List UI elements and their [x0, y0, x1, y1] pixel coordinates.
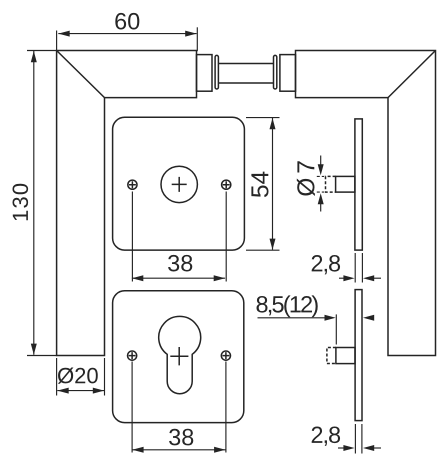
bottom side-view rosette plate [355, 290, 362, 421]
arrowhead D7 bottom [318, 193, 324, 204]
dim 130 bottom tick [27, 355, 57, 357]
dim 38 top right extension [225, 192, 227, 282]
keyhole cross [170, 347, 188, 365]
dim 54 bottom extension [246, 249, 280, 251]
arrowhead 54 top [270, 118, 276, 129]
left handle collar ring [215, 55, 218, 89]
dim 2,8 top right extension [361, 253, 363, 283]
top rosette square plate [113, 117, 245, 250]
arrowhead 130 top [31, 51, 37, 62]
spindle [219, 64, 273, 84]
top rosette right screw [222, 180, 231, 189]
arrowhead 38 bottom right [214, 447, 225, 453]
dim 130 top tick [27, 50, 57, 52]
euro profile cylinder keyhole [159, 316, 201, 393]
arrowhead D20 right [93, 388, 104, 394]
dim 2,8 bottom right shaft [372, 447, 381, 449]
arrowhead 38 bottom left [132, 447, 143, 453]
bottom rosette right screw [221, 351, 230, 360]
dim 2,8 bottom left shaft [338, 447, 345, 449]
dim 130 line [33, 51, 35, 355]
dim 8,5(12) leader line [258, 317, 331, 319]
dim 60 left extension line [56, 31, 58, 51]
arrowhead 2,8 top left [343, 275, 354, 281]
dim D20 left extension [56, 358, 58, 396]
right handle collar ring [274, 55, 277, 89]
label 54 (rotated) [251, 172, 268, 198]
label 38 bottom [169, 429, 193, 446]
dim 38 bottom right extension [225, 362, 227, 453]
top side-view rosette plate [355, 119, 362, 250]
dim 54 top extension [246, 117, 280, 119]
bottom side-view spindle stub [336, 348, 355, 364]
arrowhead 8,5(12) right [363, 315, 374, 321]
label 8,5(12) [257, 295, 318, 317]
arrowhead 38 top right [214, 275, 225, 281]
top side-view spindle stub [336, 176, 355, 192]
dim 60 right extension line [196, 27, 198, 51]
dim 38 bottom line [132, 449, 225, 451]
top rosette center boss circle [161, 166, 197, 202]
dim D7 top arrow shaft [320, 156, 322, 167]
dim D7 top extension dashes [317, 175, 324, 177]
label 2,8 bottom [312, 427, 340, 446]
label 2,8 top [312, 255, 340, 274]
left handle neck [197, 55, 213, 92]
arrowhead 60 left [58, 31, 69, 37]
lever handle right grip and vertical bar [296, 51, 436, 356]
arrowhead 8,5(12) left [325, 315, 336, 321]
top rosette left screw [128, 180, 137, 189]
dim D7 bottom arrow shaft [320, 204, 322, 212]
top side-view hidden stub dashed box [326, 176, 336, 192]
top rosette center cross [172, 177, 187, 192]
arrowhead 130 bottom [31, 344, 37, 355]
right grip chamfer diagonal [388, 51, 436, 98]
dim 2,8 top left extension [354, 253, 356, 283]
arrowhead 2,8 bottom left [343, 445, 354, 451]
left grip chamfer diagonal [57, 51, 105, 98]
dim D7 bottom extension dashes [317, 191, 324, 193]
dim 2,8 top right shaft [372, 277, 381, 279]
right handle neck [280, 55, 296, 92]
dim 38 top line [132, 277, 225, 279]
dim 54 line [272, 118, 274, 250]
arrowhead 2,8 top right [363, 275, 374, 281]
dim D20 right extension [104, 358, 106, 396]
label 130 (rotated) [13, 184, 29, 221]
arrowhead 54 bottom [270, 239, 276, 250]
arrowhead D20 left [57, 388, 68, 394]
dim D20 line [57, 390, 104, 392]
label D7 (rotated) [297, 161, 315, 196]
label D20 [58, 368, 98, 384]
arrowhead 38 top left [132, 275, 143, 281]
dim 38 bottom left extension [131, 362, 133, 453]
dim 2,8 bottom right extension [361, 424, 363, 454]
label 60 [115, 13, 139, 30]
bottom rosette left screw [128, 351, 137, 360]
lever handle left grip and vertical bar [57, 51, 197, 356]
dim 60 line [58, 33, 196, 35]
arrowhead 2,8 bottom right [363, 445, 374, 451]
bottom side-view hidden stub dashed box [327, 348, 336, 364]
arrowhead D7 top [318, 164, 324, 175]
bottom rosette square plate [113, 291, 244, 423]
label 38 top [168, 255, 192, 272]
dim 2,8 top left shaft [339, 277, 345, 279]
arrowhead 60 right [185, 31, 196, 37]
dim 38 top left extension [131, 192, 133, 282]
dim 8,5(12) vertical extension [335, 314, 337, 344]
dim 2,8 bottom left extension [354, 424, 356, 454]
